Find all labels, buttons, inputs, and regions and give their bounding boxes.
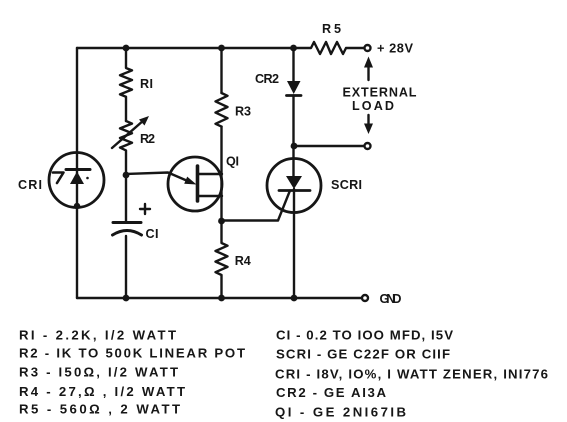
svg-text:RI: RI: [140, 77, 153, 91]
transistor Q1 (UJT): [168, 157, 222, 211]
svg-text:R4 - 27,Ω , I/2 WATT: R4 - 27,Ω , I/2 WATT: [19, 384, 185, 399]
resistor R1: [120, 48, 132, 121]
junction node bottom SCR: [291, 295, 298, 302]
junction node top R1: [123, 45, 130, 52]
terminal GND: [362, 295, 368, 301]
wire top rail to R3: [220, 48, 222, 93]
resistor R5: [294, 42, 365, 54]
svg-text:CI - 0.2 TO IOO MFD, I5V: CI - 0.2 TO IOO MFD, I5V: [276, 328, 453, 343]
capacitor C1 plus sign: [140, 204, 150, 214]
wire SCR1 gate: [222, 191, 291, 221]
junction node CR1 bottom: [74, 203, 80, 209]
junction node R2/C1/emitter: [123, 172, 130, 179]
junction node load tap: [291, 143, 298, 150]
junction node top R3: [218, 45, 225, 52]
terminal load lower: [365, 143, 371, 149]
svg-text:CRI: CRI: [18, 178, 42, 192]
svg-text:R2 - IK TO 500K LINEAR POT: R2 - IK TO 500K LINEAR POT: [19, 346, 245, 361]
wire R3 to gate node: [220, 127, 222, 221]
svg-text:QI: QI: [226, 155, 239, 169]
wire CR2 branch top: [292, 48, 294, 81]
svg-text:SCRI - GE C22F OR CIIF: SCRI - GE C22F OR CIIF: [276, 347, 450, 362]
wire top rail: [77, 47, 293, 49]
svg-text:CR2: CR2: [255, 72, 279, 86]
wire R2 bottom to C1 node: [125, 175, 127, 222]
svg-text:CI: CI: [146, 227, 159, 241]
terminal +28V: [365, 45, 371, 51]
svg-text:EXTERNAL: EXTERNAL: [343, 86, 417, 100]
junction node top CR2: [290, 45, 297, 52]
junction node bottom R4: [218, 295, 225, 302]
SCR1: [267, 159, 321, 299]
diode CR2: [287, 81, 302, 177]
potentiometer R2: [120, 121, 132, 175]
wire load tap: [294, 145, 364, 147]
svg-text:R3: R3: [235, 105, 251, 119]
svg-text:R4: R4: [235, 254, 251, 268]
resistor R4: [216, 221, 228, 298]
svg-text:+ 28V: + 28V: [377, 41, 413, 56]
junction node gate/R4: [218, 218, 225, 225]
svg-text:R5 - 560Ω , 2 WATT: R5 - 560Ω , 2 WATT: [19, 402, 180, 417]
junction node bottom C1: [123, 295, 130, 302]
wire node R2/C1 to Q1 emitter: [126, 173, 190, 183]
wire left rail: [76, 48, 78, 298]
svg-text:SCRI: SCRI: [331, 178, 362, 192]
capacitor C1: [113, 223, 142, 299]
resistor R3: [216, 93, 228, 127]
svg-text:GND: GND: [380, 292, 402, 306]
wire bottom rail: [77, 297, 362, 299]
potentiometer R2 arrow: [112, 120, 144, 148]
arrow external load up: [364, 57, 373, 81]
zener diode CR1: [49, 153, 104, 208]
svg-text:R3 - I50Ω, I/2 WATT: R3 - I50Ω, I/2 WATT: [19, 365, 178, 380]
svg-text:CR2 - GE AI3A: CR2 - GE AI3A: [276, 385, 386, 400]
arrow external load down: [364, 115, 373, 134]
svg-text:LOAD: LOAD: [352, 99, 394, 113]
svg-text:R2: R2: [140, 132, 155, 146]
